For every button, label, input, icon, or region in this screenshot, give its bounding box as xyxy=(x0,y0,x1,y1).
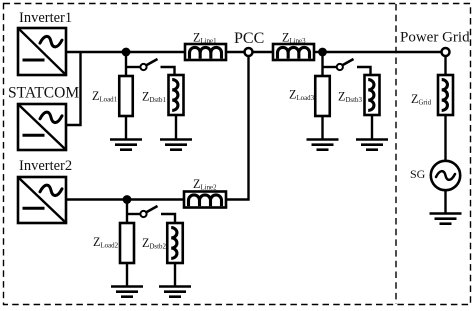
wire Inverter1 output to junction xyxy=(66,51,126,53)
wire switch to Zdstb2 xyxy=(161,214,175,223)
wire Zdstb3 to ground xyxy=(371,115,373,140)
svg-text:ZLine2: ZLine2 xyxy=(193,177,217,192)
svg-text:Inverter1: Inverter1 xyxy=(19,10,72,26)
svg-text:ZLoad3: ZLoad3 xyxy=(289,88,315,103)
wire Zgrid to SG xyxy=(444,115,446,161)
inverter Inverter2 xyxy=(18,177,66,223)
ground under Zload1 xyxy=(110,140,142,150)
svg-text:ZDstb3: ZDstb3 xyxy=(338,90,362,105)
svg-text:Power Grid: Power Grid xyxy=(400,30,470,46)
ground under Zdstb1 xyxy=(160,140,192,150)
impedance Z_Line2 xyxy=(184,192,226,208)
junction dot bus1 xyxy=(122,48,131,57)
switch S1 blade xyxy=(146,59,157,65)
impedance Z_Line1 xyxy=(185,44,226,60)
switch S2 stub xyxy=(127,213,140,215)
wire Zline2 to PCC riser xyxy=(226,57,249,200)
svg-text:Inverter2: Inverter2 xyxy=(19,158,72,174)
impedance Z_Dstb2 xyxy=(167,223,183,263)
wire Zline3 to junction3 xyxy=(314,51,323,53)
wire Inverter2 output to junction2 xyxy=(66,198,127,200)
svg-text:ZLoad2: ZLoad2 xyxy=(93,235,119,250)
wire junction3 to Zload3 xyxy=(321,52,323,76)
svg-text:ZLoad1: ZLoad1 xyxy=(92,89,118,104)
wire junction3 to grid node xyxy=(323,51,442,53)
switch S2 blade xyxy=(146,206,157,212)
switch S1 stub xyxy=(126,66,140,68)
node PCC xyxy=(245,48,253,56)
svg-text:ZDstb1: ZDstb1 xyxy=(142,90,166,105)
switch S3 blade xyxy=(342,59,353,65)
wire SG to ground xyxy=(444,190,446,214)
wire switch to Zdstb1 xyxy=(161,67,175,75)
load Z_Load2 xyxy=(120,223,134,263)
wire junction to Zload1 xyxy=(125,52,127,76)
wire bus1 junction to Zline1 xyxy=(126,51,185,53)
ground under SG xyxy=(430,214,462,224)
ground under Zload3 xyxy=(307,140,339,150)
wire Zdstb1 to ground xyxy=(175,115,177,140)
wire STATCOM output xyxy=(66,52,81,125)
switch S3 stub xyxy=(323,66,338,68)
wire switch to Zdstb3 xyxy=(357,67,371,75)
impedance Z_Dstb3 xyxy=(365,75,380,115)
impedance Z_Dstb1 xyxy=(169,75,184,115)
svg-text:ZGrid: ZGrid xyxy=(411,92,432,107)
ground under Zdstb2 xyxy=(159,287,191,297)
junction dot bus3 xyxy=(318,48,327,57)
svg-text:STATCOM: STATCOM xyxy=(8,85,79,102)
node power grid connection xyxy=(442,48,450,56)
switch S3 hinge circle xyxy=(337,64,343,70)
impedance Z_Line3 xyxy=(273,44,314,60)
svg-text:PCC: PCC xyxy=(234,30,264,47)
load Z_Load3 xyxy=(315,76,330,116)
inverter Inverter1 xyxy=(18,28,66,75)
wire junction2 to Zload2 xyxy=(126,200,128,224)
ground under Zdstb3 xyxy=(356,140,388,150)
statcom converter STATCOM xyxy=(18,104,66,150)
wire junction2 to Zline2 xyxy=(127,198,184,200)
dashed partition line between microgrid and power grid xyxy=(395,4,397,304)
wire grid node to Zgrid xyxy=(444,56,446,75)
impedance Z_Grid xyxy=(438,75,453,115)
wire Zload1 to ground xyxy=(125,116,127,140)
svg-text:ZDstb2: ZDstb2 xyxy=(142,236,166,251)
junction dot bus2 xyxy=(123,195,132,204)
wire Zload3 to ground xyxy=(321,116,323,140)
wire PCC to Zline3 xyxy=(253,51,274,53)
generator SG xyxy=(431,161,460,190)
switch S1 hinge circle xyxy=(140,64,146,70)
wire Zline1 to PCC xyxy=(226,51,245,53)
switch S2 hinge circle xyxy=(140,211,146,217)
wire Zload2 to ground xyxy=(126,263,128,287)
ground under Zload2 xyxy=(111,287,143,297)
svg-text:SG: SG xyxy=(410,167,426,181)
load Z_Load1 xyxy=(119,76,133,116)
wire Zdstb2 to ground xyxy=(174,263,176,287)
